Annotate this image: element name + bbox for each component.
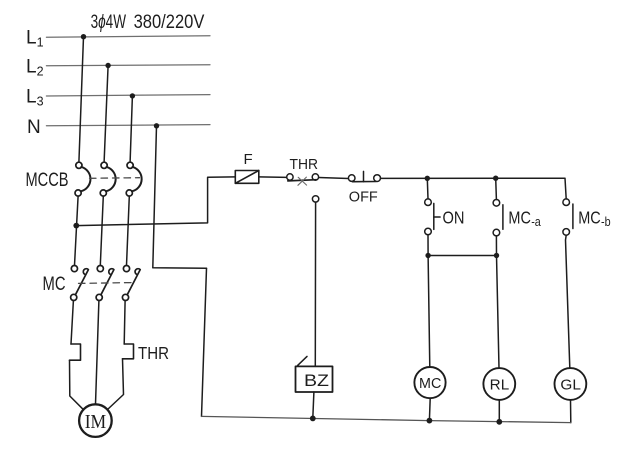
wire MC pole2 to motor xyxy=(96,301,99,405)
wire L3 to MCCB xyxy=(130,96,132,162)
button ON xyxy=(425,199,440,235)
svg-text:IM: IM xyxy=(85,411,107,433)
junction L1 tap xyxy=(81,34,86,39)
junction MC coil rail xyxy=(427,418,433,424)
wire L2 to MCCB xyxy=(104,66,108,163)
svg-text:L2: L2 xyxy=(26,57,44,79)
wire MCa to cross wire xyxy=(495,236,497,256)
junction cross wire left xyxy=(425,253,430,258)
wire control rail xyxy=(381,178,567,199)
contactor MC pole 1 xyxy=(71,266,89,301)
svg-text:THR: THR xyxy=(138,343,169,363)
motor IM xyxy=(79,404,112,437)
junction L2 tap xyxy=(105,63,110,68)
wire rail to ON xyxy=(426,178,429,199)
wire RL to rail xyxy=(498,400,500,422)
junction L3 tap xyxy=(130,93,135,98)
wire N down xyxy=(153,126,207,268)
junction MCa branch xyxy=(493,176,498,181)
junction RL rail xyxy=(496,419,502,425)
svg-text:MCCB: MCCB xyxy=(26,170,69,191)
breaker MCCB pole 2 xyxy=(100,162,115,196)
junction control feed xyxy=(73,223,79,229)
button OFF xyxy=(348,171,380,181)
svg-text:BZ: BZ xyxy=(304,371,329,390)
heater THR element 3 xyxy=(123,344,134,359)
svg-text:L1: L1 xyxy=(26,28,44,50)
wire heater3 to motor xyxy=(108,359,124,410)
contactor MC gang dashed link xyxy=(79,282,133,285)
relay contact THR xyxy=(287,174,319,202)
svg-text:MC: MC xyxy=(508,207,531,227)
heater THR element 1 xyxy=(70,344,81,360)
wire heater1 to motor xyxy=(70,360,84,410)
svg-text:MC: MC xyxy=(419,376,441,392)
junction N tap xyxy=(154,123,159,128)
junction ON branch xyxy=(425,176,430,181)
svg-text:3ϕ4W: 3ϕ4W xyxy=(91,12,126,33)
svg-text:MC: MC xyxy=(43,274,66,295)
svg-text:L3: L3 xyxy=(26,87,44,109)
wire MCCB pole3 to MC xyxy=(127,196,130,265)
lamp RL xyxy=(483,368,515,400)
breaker MCCB gang dashed link xyxy=(90,177,140,180)
svg-text:-b: -b xyxy=(601,215,611,229)
breaker MCCB pole 1 xyxy=(75,162,90,196)
lamp GL xyxy=(555,368,587,400)
wire line L1 xyxy=(46,36,210,38)
svg-text:THR: THR xyxy=(290,156,319,173)
wire MC pole1 to heater xyxy=(71,301,73,345)
wire line N xyxy=(46,125,210,126)
svg-text:-a: -a xyxy=(531,215,541,229)
wire buzzer to rail xyxy=(313,392,314,418)
wire cross to MC coil xyxy=(428,256,430,368)
wire cross to RL xyxy=(497,256,500,369)
svg-text:380/220V: 380/220V xyxy=(134,12,205,33)
wire ON MCa cross xyxy=(428,255,496,257)
wire MCCB pole2 to MC xyxy=(100,196,103,265)
buzzer BZ xyxy=(296,366,333,392)
wire line L2 xyxy=(46,65,210,66)
junction buzzer rail xyxy=(310,416,316,422)
coil MC xyxy=(414,367,445,398)
svg-text:F: F xyxy=(244,151,253,168)
svg-text:MC: MC xyxy=(578,207,601,227)
contact MC-a xyxy=(493,200,503,236)
svg-text:N: N xyxy=(27,117,41,138)
wire fuse to THR contact xyxy=(259,176,287,179)
wire GL to rail xyxy=(570,400,572,423)
wire bottom rail xyxy=(202,416,571,422)
svg-text:GL: GL xyxy=(560,378,581,394)
wire N to bottom rail xyxy=(202,268,207,416)
wire MC coil to rail xyxy=(428,398,431,420)
wire MCb to GL xyxy=(566,235,570,368)
junction cross wire right xyxy=(494,253,499,258)
contactor MC pole 2 xyxy=(96,266,114,301)
contactor MC pole 3 xyxy=(122,266,140,301)
breaker MCCB pole 3 xyxy=(126,162,141,196)
wire MC pole3 to heater xyxy=(123,301,126,345)
wire line L3 xyxy=(46,95,210,96)
fuse F xyxy=(235,171,258,184)
svg-text:RL: RL xyxy=(490,378,510,394)
wire MCCB pole1 to MC xyxy=(75,196,79,265)
wire THR to OFF xyxy=(319,178,349,179)
buzzer BZ tick xyxy=(298,356,308,365)
wire rail to MCa xyxy=(495,178,498,199)
svg-text:ON: ON xyxy=(443,208,465,228)
wire control feed to fuse xyxy=(76,177,235,226)
wire ON to cross wire xyxy=(427,235,429,256)
svg-text:OFF: OFF xyxy=(349,189,378,206)
wire L1 to MCCB xyxy=(79,37,84,163)
contact MC-b xyxy=(563,199,573,235)
wire THR to buzzer xyxy=(314,202,316,366)
